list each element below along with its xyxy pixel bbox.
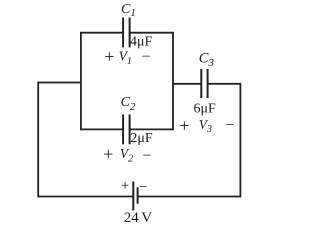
svg-text:−: −: [225, 117, 234, 134]
svg-text:+: +: [179, 116, 189, 136]
wire inner-rect bottom-right segment: [130, 128, 173, 130]
wire bottom-left segment: [38, 196, 133, 198]
wire right connector left part: [173, 83, 201, 85]
battery long plate: [132, 182, 134, 211]
capacitor C1 plates: [122, 18, 124, 48]
wire inner-rect top-right segment: [130, 32, 173, 34]
svg-text:+: +: [103, 144, 113, 164]
svg-text:6μF: 6μF: [194, 102, 217, 117]
wire outer right: [239, 83, 241, 197]
svg-text:−: −: [139, 180, 147, 196]
wire bottom-right segment: [138, 196, 241, 198]
wire inner-rect right edge: [172, 32, 174, 131]
svg-text:−: −: [142, 48, 151, 65]
wire inner-rect top-left segment: [81, 32, 123, 34]
capacitor C2 plates: [122, 114, 124, 144]
wire left connector: [38, 82, 81, 84]
svg-text:+: +: [121, 178, 129, 194]
battery short plate: [137, 187, 139, 203]
svg-text:−: −: [142, 147, 151, 164]
svg-text:+: +: [104, 46, 114, 66]
wire inner-rect bottom-left segment: [81, 128, 123, 130]
capacitor C3 plates: [200, 69, 202, 98]
svg-text:2μF: 2μF: [130, 131, 153, 146]
wire outer left: [37, 82, 39, 198]
wire right connector right part: [208, 83, 241, 85]
svg-text:4μF: 4μF: [130, 35, 153, 50]
svg-text:V: V: [141, 210, 152, 226]
wire inner-rect left edge: [80, 32, 82, 131]
svg-text:24: 24: [124, 210, 140, 226]
